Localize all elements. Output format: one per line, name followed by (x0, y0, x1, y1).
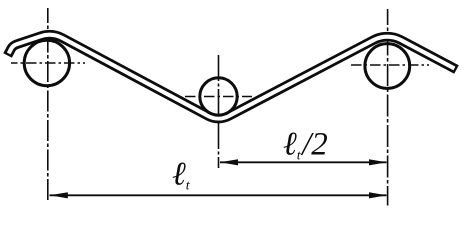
center line vertical, middle roller / extension line (218, 55, 220, 168)
dimension line l_t/2 (220, 161, 387, 163)
arrowhead right, l_t/2 (369, 159, 387, 165)
center line horizontal, left roller (11, 62, 85, 64)
arrowhead left, l_t (50, 192, 68, 198)
center line vertical, right roller / extension line (387, 9, 389, 206)
center line vertical, left roller / extension line (47, 8, 49, 200)
roller right (365, 44, 410, 89)
center line horizontal, middle roller (185, 96, 252, 98)
roller middle (200, 78, 237, 115)
roller left (24, 40, 69, 85)
dimension line l_t (50, 194, 387, 196)
belt band outer stroke (8, 35, 457, 119)
belt band white core (9, 35, 455, 119)
arrowhead left, l_t/2 (220, 159, 238, 165)
arrowhead right, l_t (369, 192, 387, 198)
center line horizontal, right roller (351, 64, 429, 66)
svg-text:ℓt/2: ℓt/2 (283, 127, 328, 164)
